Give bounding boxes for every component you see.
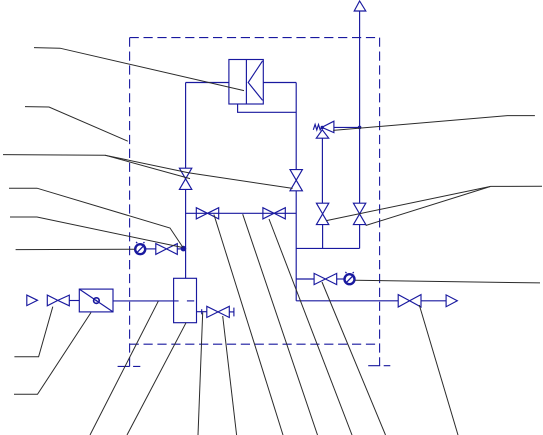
- vent arrow: [354, 1, 366, 11]
- leader fan 8: [322, 282, 386, 435]
- valve V10: [398, 295, 421, 307]
- wire F1 right port: [263, 82, 296, 84]
- leader 5: [10, 217, 182, 247]
- wire left riser lower: [185, 189, 187, 278]
- wire inlet pipe: [113, 300, 179, 302]
- valve V3: [316, 203, 328, 224]
- wire right riser lower: [295, 191, 297, 301]
- wire gauge to valve: [146, 248, 156, 250]
- leader fan 10: [419, 305, 458, 435]
- leader 3b: [105, 155, 293, 188]
- leader 10 tail: [491, 185, 542, 187]
- tank T1: [174, 278, 197, 322]
- relief valve RV1 body: [322, 121, 334, 132]
- node vent tee: [358, 126, 362, 130]
- valve V6 mid-right: [263, 208, 285, 219]
- leader fan 7: [269, 219, 352, 435]
- leader 10b: [366, 186, 491, 225]
- wire below V4: [359, 225, 361, 249]
- leader fan 2: [127, 323, 186, 435]
- leader fan 5: [214, 215, 283, 435]
- wire gauge branch: [296, 278, 314, 280]
- wire mid pipe: [186, 212, 297, 214]
- enclosure dashed border bottom: [130, 343, 380, 345]
- inlet arrow: [27, 295, 38, 306]
- wire V11 to gauge: [337, 278, 344, 280]
- leader fan 6: [243, 214, 318, 435]
- relief valve RV1 spring: [313, 124, 322, 129]
- enclosure dashed border left: [129, 38, 131, 367]
- wire relief outlet: [334, 126, 360, 128]
- end cap tick: [233, 308, 235, 317]
- valve V8: [207, 306, 230, 317]
- leader 1: [34, 48, 244, 91]
- leader 8: [14, 313, 91, 395]
- valve V1: [179, 168, 191, 189]
- valve V2: [290, 170, 302, 191]
- leader 3a: [3, 155, 190, 179]
- leader 4: [9, 188, 183, 247]
- leader 6: [16, 248, 135, 250]
- valve V4: [353, 203, 365, 224]
- flange tick: [201, 309, 203, 314]
- wire vent line upper: [359, 11, 361, 203]
- wire V10 to out arrow: [421, 300, 446, 302]
- wire below V3: [322, 225, 324, 249]
- valve V7: [156, 244, 178, 255]
- wire relief drop: [321, 138, 323, 203]
- outlet arrow: [446, 295, 457, 307]
- leader fan 3: [198, 312, 203, 435]
- enclosure dashed border right: [379, 38, 381, 366]
- border corner dash bottom-right: [368, 365, 390, 367]
- valve V11: [314, 273, 337, 284]
- gauge PG2: [345, 274, 355, 284]
- pump P1 box: [79, 289, 113, 312]
- wire outlet line: [296, 300, 398, 302]
- valve V9: [47, 295, 69, 306]
- leader 10a: [326, 186, 490, 220]
- wire V8 outlet: [229, 311, 234, 313]
- leader fan 4: [223, 316, 237, 435]
- wire tank drain stub: [197, 311, 207, 313]
- valve V5 mid-left: [196, 208, 218, 219]
- leader 7: [14, 307, 52, 357]
- wire F1 bottom stub: [238, 104, 297, 112]
- leader 9: [333, 116, 535, 131]
- node relief junction: [321, 126, 324, 129]
- leader 2: [25, 107, 128, 142]
- enclosure dashed border top: [130, 37, 380, 39]
- wire F1 left port: [186, 82, 229, 84]
- wire header: [296, 247, 359, 249]
- wire left riser upper: [185, 83, 187, 169]
- wire V9 to pump: [69, 300, 79, 302]
- leader 11: [355, 280, 540, 283]
- leader fan 1: [90, 301, 158, 435]
- gauge PG1: [135, 244, 145, 254]
- wire valve to riser: [177, 248, 185, 250]
- wire right riser upper: [295, 83, 297, 170]
- filter box F1: [229, 60, 263, 105]
- node junction dot: [181, 246, 187, 252]
- border corner dash bottom-left: [118, 365, 141, 367]
